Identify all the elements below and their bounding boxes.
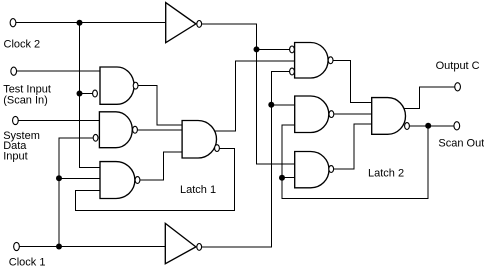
terminal Output C (455, 83, 461, 91)
wire Clock1 branch to G3 input B (59, 177, 100, 179)
bubble G1 output (133, 82, 138, 89)
NAND gate U2 (295, 43, 329, 79)
wire Test Input to G1 (17, 70, 101, 72)
wire Clock2 vertical to gate G3 input A (80, 23, 101, 168)
NAND gate L2 (Latch 2) (372, 98, 406, 135)
bubble U2 output (328, 57, 333, 64)
wire G1 output to L1 input 1 (138, 86, 182, 125)
svg-text:Output C: Output C (436, 60, 480, 72)
junction L2 feedback/B2 (279, 175, 285, 181)
junction Clock1/G3 (56, 175, 62, 181)
junction I2 net/M2 (268, 102, 274, 108)
wire B2 output to L2 input 3 (334, 124, 372, 169)
bubble B2 output (329, 166, 334, 173)
wire Clock1 vertical to G2 inverted input (59, 138, 93, 247)
bubble L2 output (405, 123, 410, 130)
wire G3 output to L1 input 3 (140, 152, 182, 180)
bubble U2 input 1 (290, 46, 295, 53)
svg-text:Latch 2: Latch 2 (368, 167, 404, 179)
wire L2 feedback branch to B2 input 2 (282, 177, 295, 179)
junction Clock2/inverter (77, 20, 83, 26)
bubble G2 input (93, 134, 98, 141)
junction L2 output/Scan Out (425, 123, 431, 129)
svg-text:(Scan In): (Scan In) (3, 95, 48, 107)
bubble U2 input 2 (290, 68, 295, 75)
NAND gate G3 (100, 162, 135, 199)
wire Clock1 horizontal (19, 246, 165, 248)
inverter I2 (165, 223, 196, 263)
junction Clock2/G1 (77, 91, 83, 97)
wire G2 output to L1 input 2 (138, 129, 183, 131)
bubble G1 input (93, 90, 98, 97)
terminal Clock 2 (10, 19, 16, 27)
wire Clock2 horizontal (16, 22, 166, 24)
svg-text:Latch 1: Latch 1 (180, 184, 216, 196)
bubble I2 output (197, 244, 202, 251)
bubble M2 output (329, 111, 334, 118)
NAND gate B2 (295, 152, 329, 188)
svg-text:Clock 2: Clock 2 (4, 39, 41, 51)
NAND gate G2 (99, 112, 132, 148)
wire L1 tap to U2 middle input (214, 61, 295, 131)
junction I1 net/U2 (254, 46, 260, 52)
terminal Scan Out (454, 122, 460, 130)
wire L2 feedback loop (282, 125, 428, 199)
NAND gate L1 (Latch 1) (182, 121, 216, 159)
bubble G2 output (133, 126, 138, 133)
wire L1 output feedback to G3 input C (75, 148, 234, 210)
svg-text:Input: Input (3, 150, 27, 162)
svg-text:Clock 1: Clock 1 (9, 257, 46, 269)
NAND gate G1 (100, 67, 134, 104)
bubble G3 output (135, 177, 140, 184)
wire I1 net branch to U2 inverted input 1 (257, 48, 290, 50)
bubble L1 output (215, 145, 220, 152)
NAND gate M2 (295, 96, 329, 133)
inverter I1 (166, 3, 196, 43)
wire System Data Input to G2 (18, 120, 99, 122)
terminal Clock 1 (14, 242, 20, 250)
bubble I1 output (197, 21, 202, 28)
svg-text:Scan Out: Scan Out (438, 137, 484, 149)
wire Clock2 branch to G1 inverted input (80, 93, 93, 95)
wire L2 output to Scan Out (410, 125, 454, 127)
wire inverter I2 output up to U2 inverted input 2 (202, 72, 289, 247)
terminal System Data Input (13, 116, 19, 124)
wire I2 net branch to M2 input 1 (271, 104, 295, 106)
wire M2 output to L2 input 2 (334, 113, 372, 115)
junction Clock1/I2 (56, 244, 62, 250)
wire U2 output to L2 input 1 (333, 60, 372, 102)
terminal Test Input (11, 67, 17, 75)
wire inverter I1 output down to B2 input (202, 24, 295, 164)
wire L2 tap to Output C (404, 87, 455, 109)
